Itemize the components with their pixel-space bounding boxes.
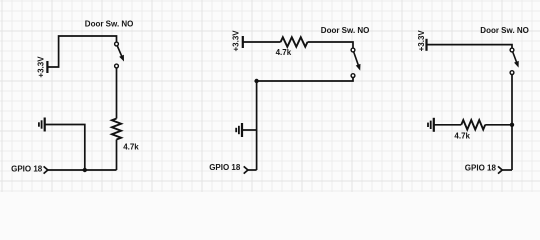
wire resistor R2 to switch SW2 (308, 42, 354, 48)
wire resistor R3 to rail (485, 124, 512, 126)
svg-text:+3.3V: +3.3V (37, 56, 46, 78)
ground GND2 (241, 123, 243, 137)
svg-text:+3.3V: +3.3V (231, 30, 240, 52)
svg-text:4.7k: 4.7k (123, 143, 139, 152)
wire resistor R1 to bottom rail (116, 140, 118, 171)
wire +3.3V to resistor R2 (243, 41, 281, 43)
wire ground tap (circuit 2) (242, 129, 257, 131)
svg-text:+3.3V: +3.3V (417, 30, 426, 52)
svg-text:4.7k: 4.7k (454, 132, 470, 141)
wire GPIO 18 bottom rail (48, 169, 117, 171)
switch SW3 Door Sw. NO (513, 52, 518, 64)
wire GPIO port stub (circuit 2) (248, 169, 257, 171)
power port +3.3V (circuit 2) (242, 36, 244, 48)
power port +3.3V (circuit 3) (425, 39, 427, 51)
port GPIO 18 (circuit 1) (44, 166, 48, 173)
power port +3.3V (circuit 1) (46, 61, 48, 73)
resistor R1 4.7k (vertical) (112, 119, 121, 140)
svg-text:GPIO 18: GPIO 18 (465, 163, 497, 172)
wire GPIO port stub (circuit 3) (502, 169, 512, 171)
wire switch SW2 down and left to junction (257, 78, 353, 82)
junction dot (circuit 1) (83, 168, 87, 172)
resistor R2 4.7k (horizontal) (281, 37, 308, 47)
grid background (0, 0, 540, 192)
junction dot (circuit 2) (254, 79, 258, 83)
ground GND3 (433, 118, 435, 132)
wire ground to resistor R3 (434, 124, 462, 126)
svg-text:Door Sw. NO: Door Sw. NO (321, 26, 370, 35)
svg-text:4.7k: 4.7k (276, 48, 292, 57)
svg-text:GPIO 18: GPIO 18 (11, 164, 43, 173)
switch SW1 Door Sw. NO (117, 46, 122, 58)
wire switch SW1 to resistor R1 (116, 68, 118, 119)
switch SW2 Door Sw. NO (354, 52, 359, 67)
wire switch SW3 to GPIO rail (511, 75, 513, 171)
resistor R3 4.7k (horizontal) (461, 120, 485, 130)
junction dot (circuit 3) (510, 123, 514, 127)
svg-text:GPIO 18: GPIO 18 (209, 163, 241, 172)
wire ground to junction (45, 125, 85, 171)
wire +3.3V to switch SW3 (427, 45, 513, 49)
port GPIO 18 (circuit 2) (244, 166, 248, 173)
ground GND1 (44, 118, 46, 132)
port GPIO 18 (circuit 3) (498, 166, 502, 173)
wire junction down to GPIO 18 (256, 81, 258, 170)
svg-text:Door Sw. NO: Door Sw. NO (85, 19, 134, 28)
wire +3.3V to switch SW1 (47, 36, 116, 67)
svg-text:Door Sw. NO: Door Sw. NO (480, 26, 529, 35)
